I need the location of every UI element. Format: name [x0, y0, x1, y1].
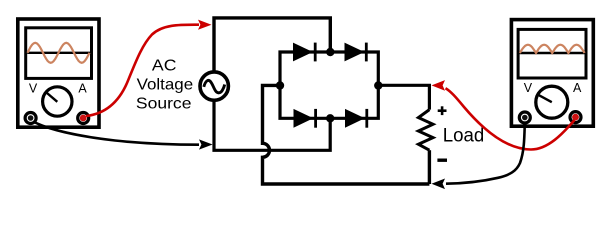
wire: left bridge node to bottom rail (with crossover hop)	[263, 85, 430, 184]
meter M1 display	[26, 28, 92, 79]
label - (load polarity)	[437, 158, 447, 161]
wire: bottom branch of bridge	[280, 86, 378, 119]
meter M2 display axis line	[520, 52, 585, 54]
meter M1 body (left multimeter)	[18, 19, 99, 127]
meter M1 black jack	[25, 113, 36, 124]
meter M2 rectified waveform	[520, 45, 585, 53]
node: top branch midpoint	[326, 48, 334, 56]
black probe wire W4 (M2 black jack to bottom rail)	[446, 122, 525, 184]
black probe wire W2 (M1 black jack to source bottom wire)	[34, 122, 199, 145]
meter M1 sine waveform	[28, 43, 90, 63]
meter M1 red jack	[78, 113, 89, 124]
meter M2 dial needle	[537, 94, 552, 102]
meter M1 dial	[43, 87, 72, 116]
meter M2 body (right multimeter)	[511, 20, 593, 127]
meter M2 black jack	[519, 112, 530, 123]
black probe arrowhead (points left at bottom rail)	[432, 179, 446, 190]
meter M2 display	[518, 29, 586, 78]
diode D2	[345, 43, 365, 62]
svg-text:Source: Source	[136, 94, 192, 112]
svg-text:V: V	[524, 81, 533, 95]
red probe arrowhead (points right at top rail)	[198, 20, 212, 30]
node: bottom branch midpoint	[326, 114, 334, 122]
meter M2 dial	[536, 86, 568, 118]
wire: top branch of bridge	[280, 52, 378, 86]
diode D3	[294, 109, 314, 128]
svg-text:Load: Load	[443, 126, 485, 147]
svg-text:Voltage: Voltage	[137, 75, 194, 93]
meter M2 red jack	[570, 112, 581, 123]
diode D4	[345, 109, 365, 128]
red probe wire W1 (M1 red jack to AC source top wire)	[86, 25, 199, 116]
wire: source bottom to bridge bottom midpoint	[214, 102, 330, 151]
black probe arrowhead (points right)	[199, 139, 213, 149]
node: left bridge output	[276, 81, 284, 89]
label + (load polarity)	[438, 106, 447, 115]
svg-text:A: A	[573, 81, 582, 95]
svg-text:AC: AC	[152, 57, 177, 75]
svg-text:V: V	[29, 82, 38, 96]
red probe arrowhead (points left at load top)	[432, 80, 446, 91]
node: right bridge output	[374, 81, 382, 89]
wire: right bridge node to load top	[378, 85, 429, 109]
svg-text:A: A	[78, 81, 87, 95]
wire: load bottom to bottom rail	[428, 150, 431, 184]
red probe wire W3 (M2 red jack to load top)	[446, 88, 575, 149]
diode D1	[293, 43, 313, 62]
meter M1 display axis line	[27, 52, 90, 54]
meter M1 dial needle	[45, 92, 57, 102]
AC source V1	[200, 72, 228, 100]
resistor R1 (Load)	[418, 110, 433, 151]
wire: source top to bridge top midpoint (top rail)	[214, 18, 330, 71]
